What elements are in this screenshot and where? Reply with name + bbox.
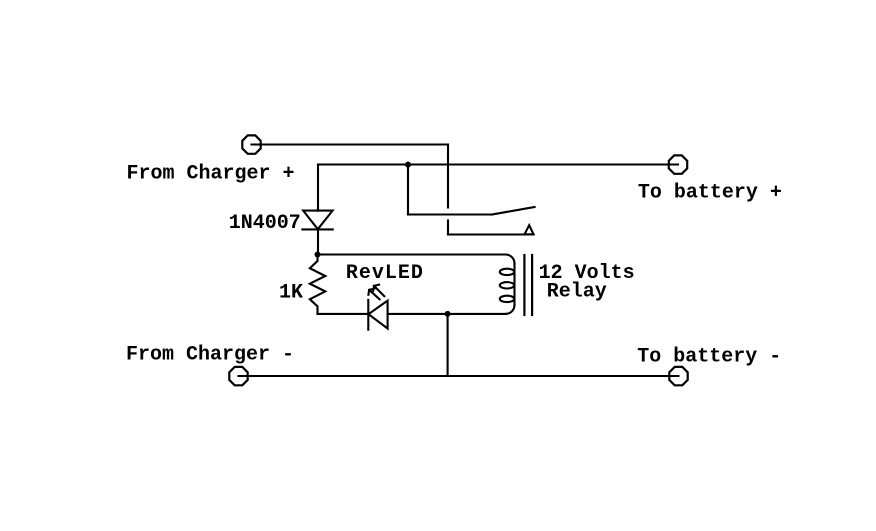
diode D1 cathode lead <box>317 229 319 254</box>
diode D1 cathode bar <box>302 228 332 230</box>
svg-text:To battery -: To battery - <box>637 345 781 368</box>
resistor R1 zigzag <box>310 255 326 314</box>
wire corner down to switch fixed side (upper part, jump gap) <box>447 145 449 208</box>
LED D2 arrow 2 head <box>368 289 374 295</box>
switch fixed contact triangle <box>525 225 534 234</box>
wire to switch arm pivot <box>408 213 492 215</box>
svg-text:From Charger -: From Charger - <box>126 344 294 367</box>
terminal T1 (From Charger +) <box>242 135 260 153</box>
node B junction dot <box>315 252 321 258</box>
svg-text:From Charger +: From Charger + <box>127 162 295 185</box>
wire bottom bus <box>239 375 679 377</box>
LED D2 cathode bar <box>367 300 369 330</box>
relay L1 coil loop 1 <box>500 269 514 275</box>
LED D2 arrow 1 head <box>373 285 379 291</box>
wire node A down to switch arm <box>407 165 409 215</box>
relay L1 core line 1 <box>523 255 525 315</box>
switch arm (diagonal) <box>492 207 535 215</box>
LED D2 triangle <box>369 301 388 329</box>
node C junction dot <box>445 311 451 317</box>
svg-text:1N4007: 1N4007 <box>229 212 301 235</box>
wire resistor bottom to LED <box>318 313 369 315</box>
wire lower part of vertical after jump gap <box>447 221 449 235</box>
wire node C to relay coil bottom <box>448 313 506 315</box>
relay L1 coil loop 3 <box>500 296 514 302</box>
diode D1 triangle <box>303 211 332 230</box>
relay L1 core line 2 <box>531 255 533 315</box>
wire to switch fixed contact <box>448 233 534 235</box>
relay L1 coil spine <box>513 264 515 306</box>
LED D2 arrow 1 <box>374 286 384 296</box>
node A junction dot <box>405 162 411 168</box>
relay L1 coil bottom corner <box>506 305 515 314</box>
LED D2 arrow 2 <box>369 290 379 299</box>
svg-text:To battery +: To battery + <box>638 182 782 205</box>
relay L1 coil loop 2 <box>500 282 514 288</box>
wire LED to node C <box>388 313 448 315</box>
wire T1 to corner <box>252 143 449 145</box>
svg-text:Relay: Relay <box>547 280 607 303</box>
svg-text:RevLED: RevLED <box>346 262 424 285</box>
wire top bus to battery + <box>318 163 678 165</box>
terminal T3 (From Charger -) <box>229 367 247 385</box>
relay L1 coil top corner <box>506 255 515 264</box>
svg-text:1K: 1K <box>279 282 303 305</box>
wire node B to relay coil top <box>318 253 506 255</box>
wire node C down to bottom bus <box>447 314 449 376</box>
terminal T4 (To battery -) <box>669 367 687 385</box>
diode D1 anode lead <box>317 165 319 211</box>
terminal T2 (To battery +) <box>669 155 687 173</box>
